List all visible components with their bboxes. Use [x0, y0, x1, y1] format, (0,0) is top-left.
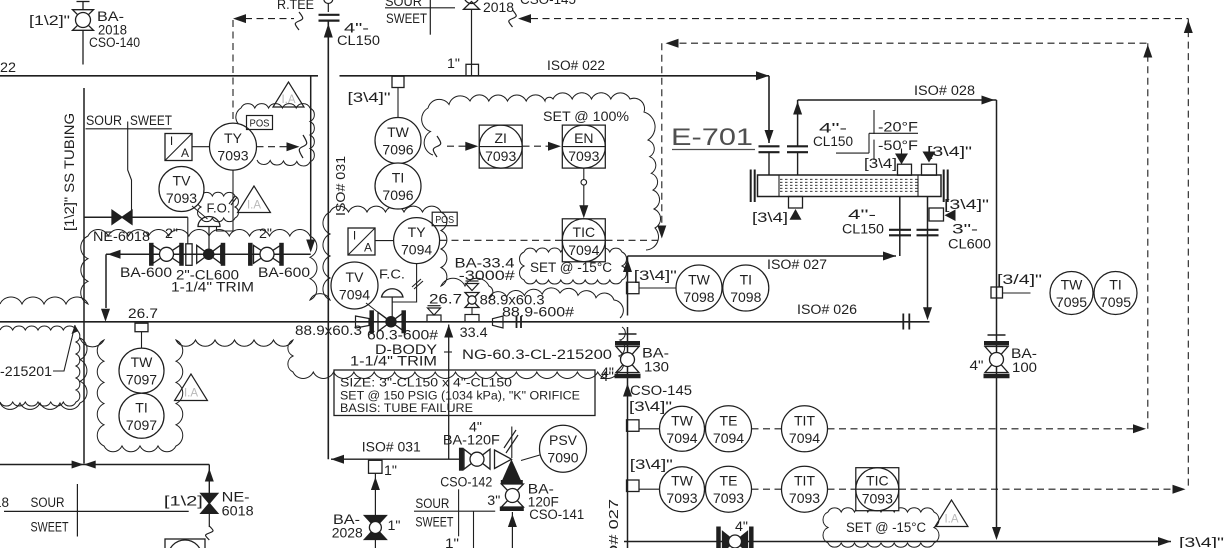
wire ISO# 027 line [628, 255, 897, 257]
wire lower header [0, 464, 209, 466]
svg-text:6018: 6018 [222, 504, 254, 519]
squiggle dashed source [433, 136, 441, 157]
instrument box POS 2 [432, 212, 457, 226]
svg-text:SWEET: SWEET [386, 11, 427, 26]
svg-text:CSO-142: CSO-142 [440, 475, 492, 490]
svg-text:7095: 7095 [1100, 294, 1131, 310]
svg-text:ISO# 027: ISO# 027 [767, 257, 827, 272]
wire dashed TIT to TIC 7093 [828, 488, 857, 490]
arrow outer dashed up [1184, 20, 1193, 33]
arrow riser up [324, 24, 333, 38]
wire ISO22 branch drop [310, 76, 312, 240]
wire sour/sweet divider mid-bottom [414, 510, 495, 512]
wire NE line drop to spool [187, 217, 189, 244]
arrow return up to ISO28 [793, 102, 802, 115]
wire ISO# 022 line main segment [340, 75, 770, 77]
svg-text:SWEET: SWEET [415, 515, 453, 530]
svg-text:SOUR: SOUR [31, 495, 65, 510]
wire dashed top-left segment [245, 18, 294, 20]
wire tap to TW7094 [639, 428, 660, 430]
svg-text:7094: 7094 [401, 242, 432, 258]
svg-text:-20°F: -20°F [878, 120, 918, 135]
svg-text:[3\4]": [3\4]" [1179, 534, 1224, 548]
valve 4in on bottom line [716, 527, 721, 548]
svg-text:1-1/4" TRIM: 1-1/4" TRIM [171, 280, 254, 295]
triangle I.A top [273, 82, 304, 107]
wire dashed signal down to TY7093 [232, 20, 234, 123]
svg-text:7098: 7098 [683, 289, 714, 305]
svg-text:7094: 7094 [713, 430, 744, 446]
arrow EN to TIC down [579, 205, 588, 218]
svg-text:SIZE: 3"-CL150 x 4"-CL150: SIZE: 3"-CL150 x 4"-CL150 [340, 378, 512, 390]
svg-text:ZI: ZI [494, 130, 506, 146]
arrow into ZI [465, 142, 478, 151]
wire TY7094 signal to valve [392, 264, 416, 302]
squiggle mark at F.O. [229, 196, 235, 204]
valve 2018 at top edge [464, 0, 479, 4]
svg-text:7094: 7094 [568, 242, 599, 258]
instrument I/A converter 2 [348, 228, 375, 255]
svg-text:A: A [364, 241, 372, 255]
exchanger E-701 right head flanges [943, 170, 945, 203]
drain valve E-701 bottom left [789, 197, 803, 209]
instrument TY-7094 [394, 218, 440, 264]
instrument TIT-7093 [782, 466, 828, 512]
svg-text:3": 3" [487, 493, 500, 508]
svg-text:SET @ -15°C: SET @ -15°C [530, 260, 612, 275]
node square tap TW7098 [627, 282, 640, 294]
flange tick above BA-100 [988, 334, 1006, 336]
instrument TE-7093 [706, 466, 752, 512]
svg-text:NE-6018: NE-6018 [93, 229, 150, 244]
wire I/A2 to TY7094 [375, 240, 394, 242]
svg-text:SWEET: SWEET [130, 113, 172, 128]
svg-text:I: I [353, 229, 356, 243]
valve BA-2028 [364, 516, 386, 528]
instrument TY-7093 [210, 123, 257, 170]
svg-text:SET @ 100%: SET @ 100% [543, 109, 629, 124]
svg-text:TY: TY [408, 224, 427, 240]
svg-text:7094: 7094 [339, 287, 370, 303]
wire manifold left drop [105, 254, 107, 308]
wire tap to TW7093 [639, 488, 660, 490]
arrow E-701 feed down [765, 130, 774, 143]
instrument TI-7097 [119, 393, 164, 438]
svg-text:TI: TI [135, 399, 147, 415]
wire left header drop [83, 88, 85, 464]
svg-text:TW: TW [688, 272, 711, 288]
svg-text:TIC: TIC [866, 473, 889, 489]
reducer left of TV7094 [356, 316, 370, 328]
node circle on EN-TIC [581, 180, 587, 186]
wire dashed TIC7093 right [899, 488, 1183, 490]
revision cloud ZI/EN loop [422, 93, 661, 250]
relief valve PSV-7090 [495, 450, 512, 469]
exchanger tubesheets [778, 175, 780, 197]
valve BA-130 [615, 341, 640, 346]
arrow TIC7093 dashed right [1173, 485, 1186, 494]
valve BA-120F CSO-142 [459, 448, 464, 471]
instrument ZI-7093 [479, 125, 522, 168]
instrument TV-7094 [331, 262, 378, 309]
svg-text:7093: 7093 [485, 148, 516, 164]
svg-text:7090: 7090 [547, 450, 578, 466]
svg-text:7094: 7094 [666, 430, 697, 446]
instrument TW-7096 [375, 118, 421, 164]
svg-text:EN: EN [574, 130, 593, 146]
revision cloud around F.O. [198, 192, 239, 222]
wire BA-130 riser upper [627, 256, 629, 316]
wire outer dashed segment [531, 18, 1188, 20]
arrow ISO31 left [331, 455, 344, 464]
wire NG label leader [444, 351, 452, 353]
flange pair on main line [516, 316, 518, 328]
wire tap to TW7096 [397, 88, 399, 118]
arrow -215201 leader tip [72, 325, 79, 334]
svg-text:CSO-145: CSO-145 [630, 383, 692, 398]
svg-text:SOUR: SOUR [86, 113, 122, 128]
instrument EN-7093 [562, 125, 605, 168]
svg-text:NE-: NE- [222, 490, 250, 505]
svg-text:CSO-141: CSO-141 [529, 507, 584, 522]
svg-text:7093: 7093 [862, 491, 893, 507]
instrument TIC-7093 [856, 468, 899, 511]
svg-text:TIC: TIC [573, 224, 596, 240]
svg-text:1": 1" [445, 536, 459, 548]
flange pair on 3in outlet [917, 229, 939, 231]
svg-text:7096: 7096 [382, 142, 413, 158]
wire bottom line [624, 541, 1171, 543]
svg-text:NG-60.3-CL-215200: NG-60.3-CL-215200 [462, 347, 612, 362]
instrument PSV-7090 [540, 425, 587, 472]
svg-text:[3\4]: [3\4] [752, 209, 788, 225]
valve BA-2018 with line [82, 2, 84, 10]
revision cloud main (lower boundary) [0, 327, 625, 452]
svg-text:BASIS: TUBE FAILURE: BASIS: TUBE FAILURE [340, 403, 473, 415]
flange pair on 4in riser [319, 14, 340, 16]
wire BA-2028 drop [374, 473, 376, 548]
instrument TW-7094r [660, 406, 705, 451]
svg-text:88.9-600#: 88.9-600# [502, 305, 575, 320]
svg-text:[1\2]" SS TUBING: [1\2]" SS TUBING [62, 113, 77, 231]
wire inner dashed vertical [1147, 43, 1149, 429]
svg-text:[3\4]": [3\4]" [944, 196, 989, 212]
wire sour/sweet divider bottom-left [4, 510, 189, 512]
vent valve E-701 top no.2 [922, 164, 937, 175]
vent valve 26.7 on main line [427, 315, 441, 322]
wire ISO# 031 line [331, 458, 462, 460]
revision cloud main (upper boundary) [0, 206, 623, 318]
svg-text:POS: POS [435, 214, 454, 226]
svg-text:ISO# 027: ISO# 027 [606, 499, 621, 548]
arrow NE2 riser up [205, 469, 214, 482]
svg-text:26.7: 26.7 [128, 306, 158, 321]
svg-text:TW: TW [131, 354, 154, 370]
wire ISO# 028 line [798, 99, 997, 101]
arrow bottom line right [1158, 537, 1171, 546]
svg-text:[3\4]": [3\4]" [629, 398, 672, 414]
squiggle R.TEE leader [295, 12, 303, 30]
squiggle break top dashed [509, 10, 517, 27]
svg-text:SOUR: SOUR [415, 496, 449, 511]
wire sour/sweet divider mid [385, 7, 455, 9]
spool piece 2in-CL600 [186, 244, 192, 265]
svg-text:I.A: I.A [247, 200, 261, 212]
svg-text:88.9x60.3: 88.9x60.3 [295, 323, 362, 338]
revision cloud SET -15C no.2 [823, 508, 939, 548]
svg-text:4": 4" [601, 365, 614, 380]
wire NE-6018-2 riser [208, 465, 210, 514]
svg-text:TY: TY [224, 130, 243, 146]
arrow TY7093 output [287, 142, 300, 151]
flange tick above BA-130 [619, 333, 637, 335]
wire dashed into ZI [447, 145, 476, 147]
instrument TIC-7094 [562, 219, 605, 262]
wire TIC feed dashed vertical [661, 43, 663, 226]
svg-text:E-701: E-701 [671, 124, 753, 151]
exchanger E-701 shell [758, 175, 942, 197]
instrument box POS 1 [247, 116, 273, 130]
svg-text:7095: 7095 [1056, 294, 1087, 310]
arrow inner dashed left [666, 39, 679, 48]
svg-text:POS: POS [250, 118, 270, 130]
wire sour/sweet divider upper [86, 128, 172, 130]
svg-text:BA-600: BA-600 [120, 265, 172, 280]
arrow PSV branch up [444, 325, 453, 338]
svg-text:ISO# 028: ISO# 028 [914, 83, 975, 98]
svg-text:TE: TE [720, 473, 738, 489]
actuator dome TV-7094 [382, 289, 404, 297]
svg-text:1": 1" [447, 56, 460, 71]
svg-text:TIT: TIT [794, 412, 815, 428]
svg-text:BA-600: BA-600 [258, 265, 310, 280]
svg-text:-215201: -215201 [0, 364, 52, 379]
svg-text:TI: TI [392, 170, 404, 186]
svg-text:2028: 2028 [332, 526, 363, 541]
svg-text:[3\4]": [3\4]" [927, 143, 972, 159]
flange pair on 4in outlet [889, 229, 911, 231]
wire PSV branch drop [448, 325, 450, 460]
wire tap to TW7098 [639, 287, 677, 289]
svg-text:BA-: BA- [1011, 346, 1037, 361]
wire 4in CL150 riser [327, 21, 329, 460]
instrument TI-7095 [1094, 272, 1137, 315]
svg-text:7094: 7094 [789, 430, 820, 446]
svg-text:I.A: I.A [184, 388, 198, 400]
svg-text:TW: TW [671, 473, 694, 489]
flange bar below CSO141 [500, 506, 524, 511]
wire TV7093 bubble leader [192, 206, 208, 219]
svg-text:[3/4]": [3/4]" [997, 271, 1042, 287]
svg-text:TE: TE [720, 412, 738, 428]
svg-text:26.7: 26.7 [429, 292, 462, 307]
revision cloud SET -15C no.1 [520, 248, 627, 284]
svg-text:2": 2" [259, 226, 272, 241]
svg-text:4": 4" [970, 358, 984, 373]
svg-text:[3\4]": [3\4]" [630, 456, 673, 472]
svg-text:130: 130 [644, 360, 669, 375]
wire ISO# 022 line left segment with label 22 [0, 75, 318, 77]
valve NE-6018 (horizontal, closed) [112, 210, 122, 224]
instrument TI-7098 [723, 265, 769, 311]
wire inner dashed horizontal [668, 42, 1148, 44]
svg-text:ISO# 031: ISO# 031 [362, 440, 421, 455]
exchanger tube bundle dotted lines [780, 178, 918, 180]
valve BA-600 no.1 [149, 243, 154, 266]
instrument partial at bottom edge [165, 539, 205, 548]
wire sweet spec lead to NE-6018 [128, 122, 132, 211]
triangle I.A mid [238, 186, 271, 213]
wire EN to TIC signal [583, 168, 585, 179]
note box [334, 370, 595, 416]
instrument TE-7094 [706, 406, 752, 452]
wire E-701 3in CL600 outlet [927, 197, 929, 309]
squiggle NE2 break [206, 526, 214, 540]
svg-text:F.O.: F.O. [207, 202, 231, 216]
svg-text:TIT: TIT [794, 473, 815, 489]
svg-text:TV: TV [346, 269, 365, 285]
flange pair on ISO26 line [902, 314, 904, 330]
svg-text:1": 1" [384, 463, 397, 478]
revision cloud around TY7093/POS [236, 104, 315, 166]
svg-text:F.C.: F.C. [379, 268, 405, 282]
arrow dashed signal left end [233, 14, 246, 23]
wire TY7093 signal to actuator [217, 170, 234, 231]
svg-text:ISO# 022: ISO# 022 [547, 58, 605, 73]
svg-text:7093: 7093 [666, 490, 697, 506]
svg-text:SWEET: SWEET [31, 520, 69, 535]
svg-text:-50°F: -50°F [878, 138, 918, 153]
svg-text:2": 2" [165, 226, 178, 241]
svg-text:CL150: CL150 [813, 134, 853, 149]
svg-text:4"-: 4"- [848, 207, 876, 222]
wire manifold line [106, 253, 311, 255]
valve BA-600 no.2 [248, 243, 253, 266]
svg-text:100: 100 [1012, 360, 1037, 375]
svg-text:CSO-145: CSO-145 [520, 0, 576, 7]
arrow 3in outlet down to ISO26 [923, 307, 932, 320]
arrow ISO28 bottom down [992, 527, 1001, 540]
arrow ISO27 right [883, 252, 896, 261]
wire NE2 below valve [208, 514, 210, 528]
arrow into EN [548, 142, 561, 151]
svg-text:[3\4]": [3\4]" [348, 89, 391, 105]
triangle I.A bottom right [935, 500, 968, 527]
instrument TV-7093 [159, 167, 204, 212]
reducer right on main line [493, 316, 504, 328]
svg-text:CSO-140: CSO-140 [89, 35, 140, 50]
svg-text:I.A: I.A [944, 514, 958, 526]
svg-text:-3000#: -3000# [459, 268, 516, 283]
node square 1in tap on ISO22 [466, 64, 479, 76]
wire TV7094 bubble leader [366, 303, 386, 319]
svg-text:22: 22 [0, 59, 16, 75]
node square tap TW7097 [135, 323, 148, 332]
node square tap TW7094 row [627, 420, 640, 432]
instrument TW-7097 [119, 348, 164, 393]
arrow ISO#022 into E-701 corner [756, 71, 769, 80]
flange pair E-701 return nozzle [787, 145, 808, 147]
wire BA-130 riser lower [627, 327, 629, 548]
junction arrows at lower header [72, 461, 84, 469]
node square tap TW7095 [991, 287, 1003, 298]
svg-text:7097: 7097 [126, 417, 157, 433]
revision cloud -215201 [0, 326, 80, 406]
arrow manifold drop down [101, 309, 110, 322]
instrument TI-7096 [375, 163, 421, 209]
wire dashed TE to TIT 7094 [752, 428, 782, 430]
temperature pointer lines [873, 110, 875, 134]
valve BA-100 [984, 341, 1009, 346]
svg-text:7093: 7093 [789, 490, 820, 506]
wire CSO142 spec line [458, 489, 460, 536]
valve BA-120F CSO-141 [501, 484, 523, 496]
wire dashed ZI to EN [523, 145, 559, 147]
flange pair E-701 feed nozzle [759, 145, 780, 147]
arrow TIT7094 dashed right [1133, 424, 1146, 433]
arrow manifold left [108, 250, 121, 259]
control valve TV-7094 body [369, 310, 374, 333]
squiggle mark on TY7094 signal [412, 279, 421, 287]
arrow below BA-130 up [623, 384, 632, 397]
arrow BA2028 up [371, 477, 380, 490]
exchanger E-701 left head flanges [750, 170, 752, 203]
instrument I/A converter 1 [165, 134, 192, 161]
arrow TIC feed down [657, 226, 666, 239]
svg-text:7093: 7093 [568, 148, 599, 164]
wire E-701 feed drop [768, 76, 770, 143]
arrow inner dashed up [1143, 45, 1152, 58]
instrument TW-7093r [660, 467, 705, 512]
arrow ISO22 branch down [306, 240, 315, 253]
svg-text:TI: TI [740, 272, 752, 288]
wire main process / ISO# 026 line [0, 321, 930, 323]
vent to atmosphere marks [511, 427, 513, 459]
svg-text:CL150: CL150 [337, 33, 380, 48]
svg-text:ISO# 026: ISO# 026 [797, 302, 857, 317]
wire dashed TIC7094 right [606, 239, 660, 241]
control valve TV-7093 body (ball) [197, 245, 209, 263]
wire dashed TY7094 to TIC7094 [440, 239, 562, 241]
wire dashed TE to TIT 7093 [752, 488, 782, 490]
svg-text:TW: TW [387, 124, 410, 140]
arrow dashed-left mid [518, 14, 531, 23]
svg-text:TW: TW [671, 412, 694, 428]
svg-text:TI: TI [1109, 277, 1121, 293]
svg-text:SET @ -15°C: SET @ -15°C [846, 520, 926, 535]
svg-text:3"-: 3"- [952, 222, 978, 237]
svg-text:7093: 7093 [713, 490, 744, 506]
svg-text:60.3-600#: 60.3-600# [367, 328, 439, 343]
svg-text:7097: 7097 [126, 372, 157, 388]
svg-text:I: I [170, 134, 173, 148]
svg-text:ISO# 031: ISO# 031 [333, 156, 348, 216]
svg-text:BA-120F: BA-120F [443, 433, 500, 448]
triangle I.A left [175, 374, 208, 401]
svg-text:1": 1" [388, 518, 401, 533]
reducing tee symbol at top [324, 0, 333, 4]
wire -215201 leader [53, 325, 75, 371]
svg-text:BA-: BA- [642, 346, 669, 361]
svg-text:7093: 7093 [217, 148, 248, 164]
wire tap to TW7095 [1003, 292, 1031, 294]
wire NE-6018 line [84, 216, 188, 218]
arrow CSO141 up [508, 514, 517, 527]
svg-text:[1\2]: [1\2] [164, 493, 203, 509]
svg-text:TV: TV [173, 173, 192, 189]
svg-text:[3\4]": [3\4]" [634, 267, 677, 283]
svg-text:7093: 7093 [166, 190, 197, 206]
